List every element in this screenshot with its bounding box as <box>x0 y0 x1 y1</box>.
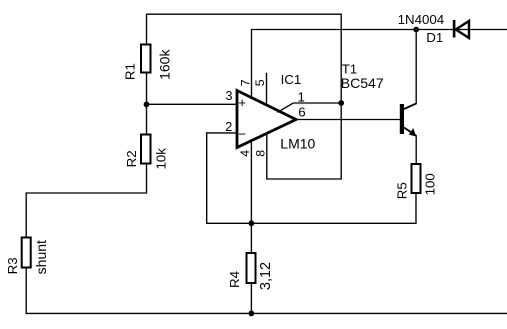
svg-text:5: 5 <box>253 79 267 86</box>
svg-text:100: 100 <box>423 173 438 195</box>
svg-text:10k: 10k <box>154 148 169 170</box>
svg-text:2: 2 <box>225 120 232 134</box>
svg-text:160k: 160k <box>156 49 172 80</box>
svg-text:7: 7 <box>238 79 252 86</box>
svg-text:LM10: LM10 <box>280 135 315 151</box>
svg-text:R1: R1 <box>123 63 138 80</box>
svg-text:BC547: BC547 <box>341 75 384 91</box>
svg-text:R3: R3 <box>5 257 20 274</box>
svg-text:3,12: 3,12 <box>258 262 274 290</box>
svg-text:1N4004: 1N4004 <box>398 12 445 27</box>
svg-text:R2: R2 <box>124 150 139 167</box>
svg-text:shunt: shunt <box>33 240 49 274</box>
svg-text:−: − <box>238 126 246 141</box>
svg-text:R4: R4 <box>227 271 242 288</box>
svg-text:+: + <box>238 95 246 110</box>
svg-text:IC1: IC1 <box>281 72 302 87</box>
svg-text:3: 3 <box>226 89 233 103</box>
svg-text:4: 4 <box>238 150 252 157</box>
svg-text:1: 1 <box>298 89 305 104</box>
svg-text:8: 8 <box>253 150 267 157</box>
svg-text:6: 6 <box>298 105 305 120</box>
svg-text:R5: R5 <box>395 182 410 199</box>
svg-text:D1: D1 <box>426 30 443 45</box>
